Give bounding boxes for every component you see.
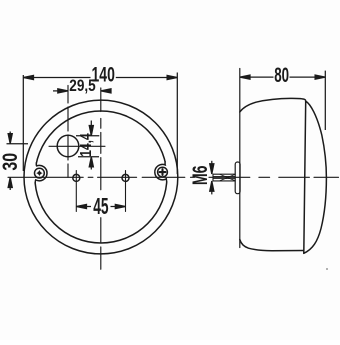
dim 45 arrow right — [115, 204, 125, 208]
dim 80 arrow left — [240, 75, 250, 79]
dim 30 line (vertical, left edge) — [9, 132, 11, 191]
back mounting plane line — [239, 69, 241, 248]
M6 stud thread lines — [213, 176, 235, 178]
mounting hole right (45 pair) — [122, 174, 129, 181]
dim 30 bottom arrow — [8, 177, 12, 187]
dim 80 line — [240, 76, 325, 78]
dim 140 extension line right — [176, 73, 178, 175]
vertical centerline of cable hole — [67, 86, 69, 178]
dim 29,5 line right part with arrow — [101, 90, 110, 92]
dim 14,4 extension top — [76, 135, 99, 137]
M6 stud chamfer X — [220, 174, 235, 180]
M6 stud bottom edge — [213, 180, 235, 182]
housing bottom outline — [240, 240, 304, 251]
dim 14,4 arrow top — [89, 126, 93, 136]
dim 45 line — [76, 206, 125, 208]
dim 80 arrow right — [315, 75, 325, 79]
dim 14,4 line segments — [90, 121, 92, 170]
vertical centerline (front view) — [100, 88, 102, 269]
outer circle (lamp rim, front view) — [24, 100, 178, 254]
M6 stud end cap — [212, 174, 214, 181]
housing top outline — [240, 98, 306, 112]
mounting hole right crosshair — [125, 171, 127, 212]
svg-text:80: 80 — [274, 63, 289, 87]
horizontal centerline (chain line through both views) — [8, 176, 339, 178]
dim 140 line — [23, 77, 177, 79]
dim 29,5 line left part with arrow — [53, 90, 68, 92]
screw S2 cross recess — [160, 169, 166, 175]
speck artifact — [326, 268, 328, 270]
dim 14,4 extension bottom — [78, 156, 99, 158]
dim 140 extension line left — [22, 75, 24, 171]
white-out for right screw tab — [152, 162, 173, 183]
dim M6 line top — [211, 161, 213, 174]
dim M6 arrow bottom — [210, 181, 214, 191]
M6 stud top edge — [213, 173, 235, 175]
horizontal centerline of cable hole — [49, 145, 105, 147]
dim 140 arrow right — [167, 75, 177, 79]
inner circle (lens edge, front view) — [35, 111, 167, 243]
right screw tab scallop — [155, 162, 167, 182]
left screw hole S1 — [35, 168, 45, 178]
svg-text:M6: M6 — [188, 165, 212, 185]
lens seam line — [304, 101, 306, 253]
dim 45 arrow left — [76, 204, 86, 208]
svg-text:29,5: 29,5 — [69, 77, 96, 96]
left screw tab scallop — [35, 163, 47, 183]
dim 14,4 arrow bottom — [89, 157, 93, 167]
screw S1 cross recess — [36, 170, 42, 176]
svg-text:30: 30 — [0, 153, 23, 171]
dim M6 line bottom — [211, 181, 213, 194]
svg-text:14,4: 14,4 — [77, 133, 95, 157]
cable entry hole (14,4) — [57, 135, 79, 157]
stud washer flange — [235, 162, 240, 194]
mounting hole left crosshair — [75, 171, 77, 212]
dim 80 extension right — [324, 71, 326, 130]
svg-text:45: 45 — [93, 195, 109, 220]
lens outer profile — [304, 101, 327, 253]
dim 30 top arrow — [8, 134, 12, 144]
right screw hole S2 — [158, 167, 168, 177]
dim 30 extension line top — [7, 143, 29, 145]
dim M6 arrow top — [210, 164, 214, 174]
mounting hole left (45 pair) — [73, 174, 80, 181]
white-out for left screw tab — [29, 163, 50, 184]
dim 140 arrow left — [23, 75, 33, 79]
